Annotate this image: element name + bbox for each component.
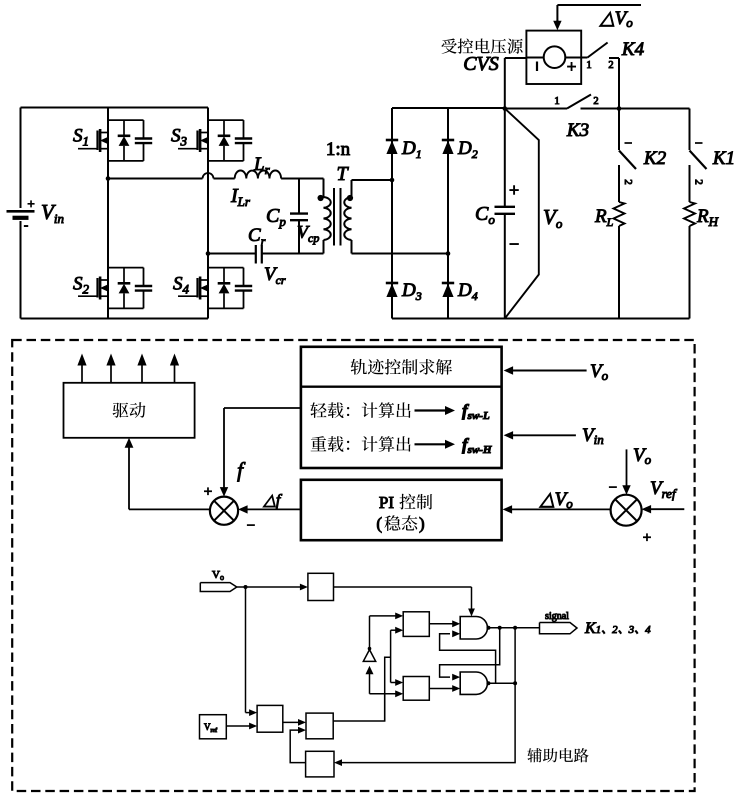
svg-text:PI: PI [379,493,394,512]
svg-text:K2: K2 [643,148,667,169]
svg-text:-: - [24,217,28,232]
svg-text:−: − [509,234,519,254]
svg-text:signal: signal [545,611,569,622]
svg-text:+: + [643,530,651,546]
svg-text:K1: K1 [712,148,735,169]
svg-text:1:n: 1:n [326,139,351,160]
svg-text:2: 2 [622,179,634,185]
svg-text:2: 2 [593,96,598,107]
svg-text:2: 2 [693,179,705,185]
svg-text:−: − [247,518,255,534]
svg-text:T: T [336,163,349,185]
svg-text:−: − [609,480,617,496]
svg-text:+: + [204,484,212,500]
svg-text:+: + [567,57,577,76]
svg-text:1: 1 [554,96,559,107]
svg-text:2: 2 [608,60,613,71]
svg-text:K3: K3 [566,120,589,141]
svg-text:+: + [509,180,519,200]
svg-text:△f: △f [263,492,283,509]
svg-text:1: 1 [586,60,591,71]
svg-text:CVS: CVS [463,53,499,75]
svg-text:): ) [419,514,425,533]
svg-text:(: ( [376,514,382,533]
svg-text:K4: K4 [621,39,645,60]
svg-text:+: + [27,196,34,211]
